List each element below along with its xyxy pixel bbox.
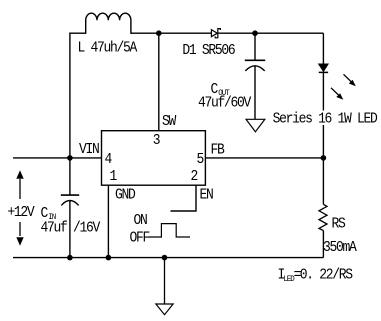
node SW-L junction — [156, 30, 162, 36]
node GND pin junction — [106, 255, 112, 261]
svg-text:+12V: +12V — [7, 204, 35, 221]
svg-text:D1 SR506: D1 SR506 — [182, 42, 235, 59]
wire top rail middle segment — [131, 32, 212, 34]
inductor L — [86, 13, 131, 34]
wire FB — [205, 157, 323, 159]
wire ground stem — [164, 258, 166, 304]
wire EN pin — [171, 185, 197, 211]
node VIN junction — [67, 155, 73, 161]
wire SW pin — [158, 33, 160, 131]
node FB junction — [321, 155, 327, 161]
EN pulse waveform — [149, 224, 190, 237]
wire GND pin — [107, 185, 109, 257]
wire right rail upper — [322, 33, 324, 64]
label CIN — [41, 205, 57, 222]
node CIN bottom junction — [67, 255, 73, 261]
svg-text:OFF: OFF — [130, 230, 150, 247]
resistor RS — [319, 204, 327, 230]
svg-text:Series 16 1W LED: Series 16 1W LED — [273, 111, 378, 128]
wire right rail below LED — [322, 72, 324, 204]
+12V source arrow up — [16, 170, 23, 199]
capacitor CIN — [61, 195, 79, 205]
svg-text:L 47uh/5A: L 47uh/5A — [78, 40, 138, 57]
wire top rail left segment — [70, 32, 86, 34]
diode D1 (Schottky) — [211, 29, 220, 38]
ground (COUT) — [246, 119, 265, 132]
op-amp U1 (switching regulator IC) — [102, 131, 206, 186]
svg-text:1: 1 — [110, 168, 117, 185]
wire bottom rail — [13, 257, 323, 259]
capacitor COUT — [245, 60, 265, 71]
label COUT — [211, 81, 230, 98]
label ILED=0.22/RS — [278, 267, 353, 284]
svg-text:SW: SW — [162, 113, 177, 130]
+12V source arrow down — [16, 222, 23, 246]
LED light arrow 1 — [344, 74, 356, 86]
wire right rail lower — [322, 231, 324, 258]
node ground junction — [162, 255, 168, 261]
wire COUT stem top — [254, 33, 256, 60]
svg-text:EN: EN — [200, 187, 214, 204]
LED diode — [319, 64, 328, 72]
label Series 16 1W LED — [271, 111, 379, 128]
svg-text:RS: RS — [332, 216, 346, 233]
svg-text:0. 22/RS: 0. 22/RS — [300, 267, 353, 284]
svg-text:FB: FB — [211, 142, 225, 159]
wire VIN — [13, 157, 102, 159]
svg-text:GND: GND — [115, 187, 135, 204]
svg-text:VIN: VIN — [79, 141, 99, 158]
wire CIN stem bottom — [69, 200, 71, 257]
svg-text:47uf/60V: 47uf/60V — [198, 95, 252, 112]
wire top rail right segment — [218, 32, 323, 34]
node COUT junction — [252, 30, 258, 36]
ground (main) — [156, 304, 173, 315]
wire left rail — [69, 33, 71, 196]
svg-text:4: 4 — [105, 151, 112, 168]
svg-text:ON: ON — [134, 212, 148, 229]
svg-text:3: 3 — [153, 132, 160, 149]
svg-text:2: 2 — [191, 168, 198, 185]
svg-text:350mA: 350mA — [323, 239, 357, 256]
LED light arrow 2 — [331, 88, 343, 100]
svg-text:47uf /16V: 47uf /16V — [41, 220, 101, 237]
wire COUT stem bottom — [254, 66, 256, 119]
svg-text:5: 5 — [197, 151, 204, 168]
